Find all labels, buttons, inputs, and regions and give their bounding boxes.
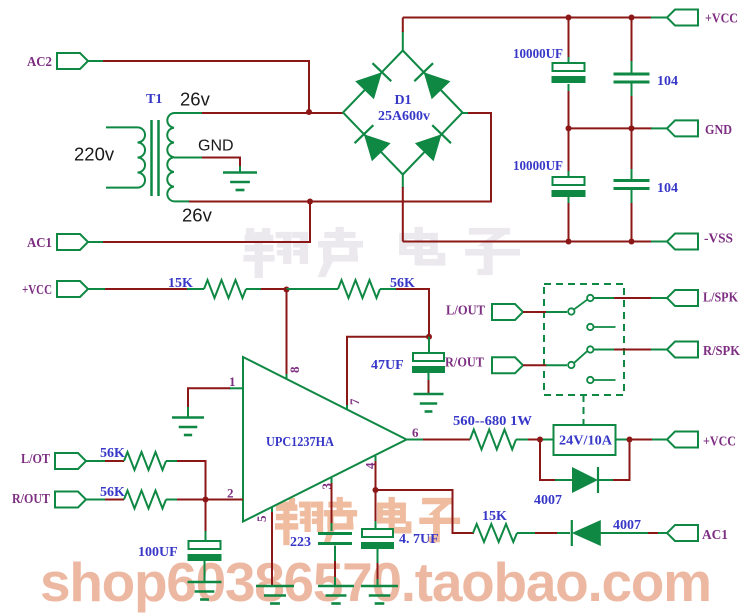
wire AC2: [88, 61, 309, 112]
svg-text:AC1: AC1: [702, 528, 728, 543]
node junctions top rails: [566, 15, 635, 245]
svg-text:R/SPK: R/SPK: [703, 344, 740, 359]
wire 100uF: [205, 500, 207, 542]
wire AC1: [88, 200, 310, 242]
connector +VCC left: [22, 281, 88, 298]
wire pin3: [331, 478, 333, 531]
svg-text:GND: GND: [705, 123, 732, 138]
ground transformer: [223, 166, 257, 190]
capacitor C3 10000UF: [513, 159, 586, 197]
capacitor C5 47UF: [371, 353, 445, 373]
pin 7 label: [347, 398, 362, 405]
resistor R2 56K: [338, 276, 415, 298]
svg-text:56K: 56K: [100, 485, 125, 500]
svg-text:220v: 220v: [74, 144, 115, 165]
connector R/OUT in: [12, 492, 86, 508]
wire R4 to pin2: [166, 499, 243, 501]
wire R3 corner: [166, 461, 206, 500]
resistor R1 15K: [168, 276, 246, 298]
svg-text:L/OUT: L/OUT: [446, 304, 486, 319]
svg-text:10000UF: 10000UF: [513, 47, 563, 62]
switch S2: [568, 346, 593, 368]
wire filter caps line: [568, 18, 570, 242]
node pin2 junction: [203, 497, 209, 503]
wire -VSS rail: [403, 241, 667, 243]
wire L/OUT: [523, 311, 567, 313]
pin 8 label: [287, 366, 302, 373]
connector L/SPK: [667, 290, 738, 306]
wire R2 corner: [380, 289, 429, 337]
op-amp U1 UPC1237HA: [243, 357, 407, 522]
connector AC2: [27, 53, 88, 70]
node 26v-AC1 junction: [307, 199, 313, 205]
node pin4 junction: [373, 487, 379, 493]
wire relay to +VCC: [616, 439, 668, 441]
wire relay dashed link: [583, 395, 585, 424]
wire R/OUT: [523, 364, 567, 366]
svg-text:AC1: AC1: [27, 236, 52, 251]
wire pin6: [407, 439, 471, 441]
pin 4 label: [363, 462, 378, 469]
connector AC1 right: [667, 525, 728, 543]
wire 47uF gnd stub: [428, 373, 430, 394]
wire 223 gnd: [334, 546, 336, 587]
wire S1 to L/SPK: [594, 297, 667, 299]
ground pin5: [256, 586, 294, 604]
wire 26v top: [174, 112, 344, 114]
wire S2 to R/SPK: [594, 349, 667, 351]
wire pin1: [188, 388, 243, 417]
svg-text:L/SPK: L/SPK: [703, 291, 738, 306]
node relay left junction: [537, 437, 543, 443]
wire pin7: [347, 337, 429, 411]
svg-text:4007: 4007: [613, 518, 641, 533]
svg-text:-VSS: -VSS: [704, 232, 733, 247]
svg-text:104: 104: [657, 181, 678, 196]
svg-text:10000UF: 10000UF: [513, 159, 563, 174]
resistor R4 56K: [100, 485, 166, 509]
svg-text:560--680 1W: 560--680 1W: [453, 414, 532, 429]
ground 47uF: [414, 394, 444, 412]
wire +VCC rail: [403, 17, 667, 19]
wire 100uF gnd: [204, 561, 206, 582]
wire R6 to diode: [517, 532, 570, 534]
svg-text:R/OUT: R/OUT: [12, 492, 51, 507]
svg-text:56K: 56K: [100, 446, 125, 461]
connector +VCC top: [667, 10, 738, 27]
svg-text:6: 6: [412, 425, 419, 440]
capacitor C7 223: [290, 532, 352, 550]
wire diode to AC1: [600, 532, 667, 534]
node relay right junction: [627, 437, 633, 443]
wire bypass caps line: [631, 18, 633, 242]
diode D3 4007: [572, 518, 641, 546]
wire +VCC feed: [88, 288, 204, 290]
svg-text:7: 7: [347, 398, 362, 405]
ground 4.7uF: [361, 586, 398, 604]
svg-text:4. 7UF: 4. 7UF: [399, 532, 439, 547]
connector R/SPK: [667, 342, 740, 360]
svg-text:T1: T1: [146, 92, 162, 107]
wire GND rail: [569, 127, 668, 129]
svg-text:+VCC: +VCC: [705, 12, 738, 27]
pin 6 label: [412, 425, 419, 440]
ground pin1: [172, 418, 204, 436]
node AC2-26v junction: [306, 109, 312, 115]
wire bridge top: [402, 18, 404, 52]
connector AC1: [27, 234, 88, 251]
relay contact box: [544, 284, 624, 395]
wire R1 to junction: [246, 288, 287, 290]
connector +VCC mid: [667, 432, 736, 450]
wire GND tap: [174, 158, 240, 172]
pin 5 label: [254, 515, 269, 522]
wire bridge bottom: [402, 174, 404, 242]
switch S1 NC contact: [587, 324, 615, 330]
connector -VSS: [667, 232, 733, 250]
svg-text:47UF: 47UF: [371, 358, 404, 373]
transformer T1: [74, 89, 234, 226]
wire L/OT: [86, 460, 124, 462]
wire pin5: [271, 507, 273, 586]
resistor R6 15K: [473, 509, 517, 542]
pin 1 label: [229, 374, 236, 389]
wire pin4: [375, 456, 377, 529]
node 47uF junction: [426, 334, 432, 340]
svg-text:8: 8: [287, 366, 302, 373]
svg-text:UPC1237HA: UPC1237HA: [266, 435, 335, 450]
wire pin8: [286, 290, 288, 381]
wire 26v bottom: [174, 113, 491, 202]
svg-text:25A600v: 25A600v: [378, 109, 430, 124]
pin 3 label: [319, 483, 334, 490]
svg-text:26v: 26v: [180, 89, 211, 110]
svg-text:26v: 26v: [182, 205, 213, 226]
resistor R5 560-680: [453, 414, 532, 450]
resistor R3 56K: [100, 446, 166, 470]
wire 47uF stub: [428, 337, 430, 354]
svg-text:104: 104: [657, 74, 678, 89]
ground 223: [318, 586, 354, 604]
capacitor C8 4.7UF: [361, 529, 439, 549]
svg-text:4007: 4007: [534, 493, 562, 508]
capacitor C6 100UF: [138, 541, 222, 561]
wire pin4 branch: [376, 490, 475, 533]
wire diode branch: [540, 440, 630, 481]
bridge rectifier D1: [343, 51, 463, 175]
capacitor C4 104: [614, 179, 679, 196]
switch S1: [568, 295, 593, 315]
switch S2 NC contact: [587, 377, 615, 383]
svg-text:L/OT: L/OT: [21, 452, 51, 467]
svg-text:+VCC: +VCC: [22, 283, 52, 298]
capacitor C2 104: [614, 73, 679, 90]
watermark: [40, 228, 712, 613]
wire junction to R2: [287, 288, 339, 290]
diode D2 4007: [534, 467, 598, 508]
svg-text:100UF: 100UF: [138, 545, 178, 560]
capacitor C1 10000UF: [513, 47, 586, 83]
wire R5 to relay: [516, 439, 553, 441]
svg-text:AC2: AC2: [27, 55, 52, 70]
svg-text:5: 5: [254, 515, 269, 522]
wire R/OUT in: [86, 499, 124, 501]
svg-text:15K: 15K: [482, 509, 507, 524]
ground 100uF: [188, 582, 222, 600]
svg-text:D1: D1: [394, 93, 411, 108]
wire 4.7uF gnd: [377, 548, 379, 586]
relay K1 24V/10A: [554, 425, 616, 455]
svg-text:24V/10A: 24V/10A: [559, 434, 613, 449]
svg-text:2: 2: [227, 486, 234, 501]
connector R/OUT: [445, 356, 523, 374]
node pin8 junction: [284, 287, 290, 293]
svg-text:GND: GND: [198, 138, 234, 155]
svg-text:15K: 15K: [168, 276, 193, 291]
svg-text:R/OUT: R/OUT: [445, 356, 485, 371]
svg-text:223: 223: [290, 535, 311, 550]
connector GND: [667, 120, 732, 138]
svg-text:1: 1: [229, 374, 236, 389]
connector L/OT: [21, 452, 86, 469]
connector L/OUT: [446, 304, 523, 321]
svg-text:+VCC: +VCC: [703, 435, 736, 450]
pin 2 label: [227, 486, 234, 501]
